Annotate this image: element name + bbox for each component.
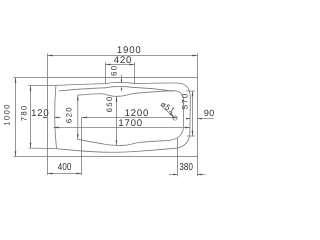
ext lines 380 [178, 138, 198, 176]
rim inner contour [55, 82, 191, 152]
dim 1200 line [82, 117, 178, 119]
arrowhead 780 top [30, 86, 32, 91]
arrowhead 90 right [198, 118, 202, 120]
basin top edge [59, 87, 173, 92]
svg-text:420: 420 [114, 55, 132, 66]
dim 120 line [44, 117, 61, 119]
arrowhead 60 upper [121, 80, 123, 83]
svg-text:400: 400 [58, 162, 72, 173]
dim 90 line [187, 118, 214, 120]
dim 400 line [48, 173, 82, 175]
arrowhead 1000 top [15, 78, 17, 83]
svg-text:1000: 1000 [3, 103, 12, 126]
dim 570 line [192, 91, 194, 136]
dim 380 line [169, 174, 206, 176]
ext lines 1900 [48, 54, 198, 78]
arrowhead 120 right [54, 117, 58, 119]
dim 60 leader [121, 75, 123, 91]
arrowhead 120 left [43, 117, 47, 119]
arrowhead 620 bottom [77, 134, 79, 139]
arrowhead 780 bottom [30, 143, 32, 148]
dim 780 line [30, 86, 32, 148]
svg-text:570: 570 [180, 92, 189, 109]
arrowhead d51 leader [170, 113, 174, 117]
svg-text:380: 380 [179, 162, 193, 173]
arrowhead 1200 right [172, 117, 177, 119]
svg-text:650: 650 [105, 95, 114, 112]
svg-text:⌀51: ⌀51 [159, 99, 177, 115]
ext lines 780 [29, 86, 57, 149]
arrowhead 420 right [129, 64, 134, 66]
dim 1000 line [15, 78, 17, 157]
dim 650 line [116, 96, 118, 145]
arrowhead 380 left [173, 174, 177, 176]
ext lines 400 [48, 118, 82, 175]
arrowhead 380 right [198, 174, 202, 176]
svg-text:780: 780 [20, 104, 29, 121]
svg-text:620: 620 [65, 106, 74, 123]
arrowhead 420 left [106, 64, 111, 66]
arrowhead 1700 right [185, 127, 190, 129]
dim 420 line [106, 64, 135, 66]
arrowhead 1900 right [192, 55, 197, 57]
arrowhead 1900 left [48, 55, 53, 57]
leader d51 [162, 107, 173, 117]
arrowhead 1000 bottom [15, 151, 17, 156]
svg-text:1700: 1700 [118, 118, 143, 129]
ext lines 1000 [14, 78, 48, 157]
arrowhead 1700 left [54, 127, 59, 129]
arrowhead 1200 left [82, 117, 87, 119]
arrowhead 650 bottom [116, 140, 118, 145]
arrowhead 400 left [48, 173, 53, 175]
arrowhead 570 bottom [192, 131, 194, 136]
basin floor contour with headrest pocket [78, 91, 184, 146]
dim 1700 line [54, 127, 191, 129]
arrowhead 400 right [76, 173, 81, 175]
svg-text:60: 60 [110, 65, 119, 76]
svg-text:90: 90 [204, 108, 215, 118]
ext lines 570 [187, 91, 195, 136]
ext lines 420 [106, 62, 135, 83]
arrowhead 90 left [186, 118, 190, 120]
outer rim rectangle 1900x1000 [48, 78, 198, 157]
svg-text:120: 120 [31, 108, 49, 119]
arrowhead 620 top [77, 95, 79, 100]
drain hole d51 [173, 116, 177, 120]
arrowhead 570 top [192, 91, 194, 96]
dim 1900 line [48, 55, 198, 57]
arrowhead 650 top [116, 96, 118, 101]
arrowhead 60 lower [121, 87, 123, 90]
